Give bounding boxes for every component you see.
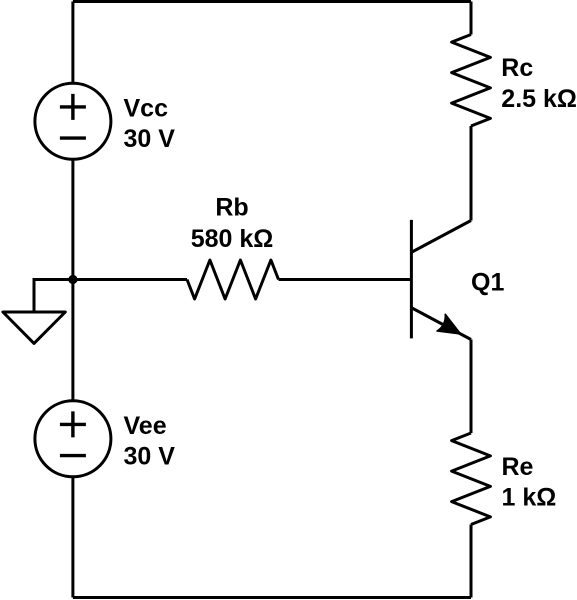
Vee plus sign — [60, 411, 86, 437]
transistor Q1 base bar — [410, 220, 413, 339]
wire Vee to bottom rail — [71, 477, 74, 598]
Vcc plus sign — [60, 94, 86, 120]
svg-text:1 kΩ: 1 kΩ — [502, 483, 557, 511]
svg-text:Rb: Rb — [215, 194, 248, 222]
svg-text:580 kΩ: 580 kΩ — [191, 225, 274, 253]
svg-text:Re: Re — [502, 453, 534, 481]
ground symbol triangle — [3, 312, 65, 343]
svg-text:Q1: Q1 — [471, 269, 504, 297]
wire ground stub — [34, 280, 73, 313]
voltage source Vee circle — [35, 401, 111, 477]
wire right rail top — [470, 2, 473, 35]
wire bottom rail — [73, 596, 471, 599]
wire Re to bottom rail — [470, 525, 473, 598]
wire node to Rb — [73, 278, 187, 281]
svg-text:Vcc: Vcc — [124, 94, 169, 122]
svg-text:30 V: 30 V — [124, 443, 176, 471]
svg-text:2.5 kΩ: 2.5 kΩ — [501, 85, 577, 113]
wire left rail upper — [71, 2, 74, 85]
wire emitter to Re — [470, 340, 473, 434]
transistor Q1 emitter arrowhead — [437, 314, 461, 334]
wire Rb to base — [279, 278, 411, 281]
svg-text:Vee: Vee — [124, 412, 167, 440]
transistor Q1 collector lead — [412, 221, 471, 253]
resistor Rc zigzag — [452, 35, 491, 127]
transistor Q1 emitter lead — [412, 308, 471, 340]
svg-text:30 V: 30 V — [124, 125, 176, 153]
resistor Rb zigzag — [187, 260, 279, 299]
wire top rail — [73, 0, 471, 3]
Vcc minus sign — [60, 136, 86, 139]
Vee minus sign — [60, 454, 86, 457]
resistor Re zigzag — [452, 433, 491, 525]
svg-text:Rc: Rc — [501, 54, 533, 82]
wire node to Vee — [71, 280, 74, 402]
wire Vcc to node — [71, 159, 74, 280]
wire collector to Rc — [470, 126, 473, 221]
voltage source Vcc circle — [35, 83, 111, 159]
node A junction dot — [68, 275, 77, 284]
